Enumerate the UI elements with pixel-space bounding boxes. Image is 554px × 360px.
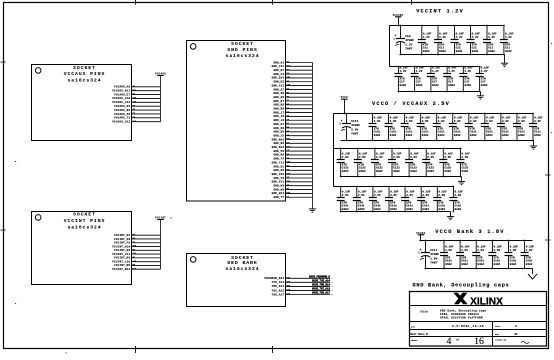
svg-text:2.5V: 2.5V: [406, 120, 413, 123]
svg-text:VCCINT_G10: VCCINT_G10: [112, 245, 130, 248]
svg-text:0402: 0402: [390, 208, 397, 211]
svg-text:0402: 0402: [454, 134, 461, 137]
svg-text:2.5V: 2.5V: [462, 156, 469, 159]
svg-text:1.2V: 1.2V: [488, 36, 495, 39]
svg-text:1.8V: 1.8V: [510, 249, 517, 252]
svg-text:2.5V: 2.5V: [374, 120, 381, 123]
svg-text:VCCAUX_F10: VCCAUX_F10: [112, 97, 130, 100]
svg-text:1.8V: 1.8V: [461, 249, 468, 252]
svg-text:Doc: Doc: [411, 326, 416, 329]
svg-text:+: +: [395, 34, 397, 38]
svg-text:2.5V: 2.5V: [376, 156, 383, 159]
svg-text:0402: 0402: [445, 263, 452, 266]
svg-text:GND_Y7: GND_Y7: [273, 196, 284, 199]
svg-text:TMS_B14: TMS_B14: [272, 285, 285, 288]
svg-text:0402: 0402: [462, 170, 469, 173]
svg-text:5: 5: [332, 294, 333, 296]
svg-text:VCCINT_E8: VCCINT_E8: [114, 238, 130, 241]
svg-text:0402: 0402: [406, 208, 413, 211]
svg-text:SOCKET: SOCKET: [73, 65, 96, 71]
svg-text:#1: #1: [514, 333, 518, 336]
svg-text:Title: Title: [420, 309, 428, 313]
svg-text:1.8V: 1.8V: [494, 249, 501, 252]
svg-text:0402: 0402: [374, 134, 381, 137]
svg-text:C: C: [551, 131, 553, 134]
svg-text:3: 3: [65, 352, 67, 355]
svg-text:1: 1: [332, 278, 333, 280]
svg-text:VCCINT_J11: VCCINT_J11: [112, 253, 130, 256]
svg-text:0402: 0402: [374, 208, 381, 211]
svg-text:0402: 0402: [502, 134, 509, 137]
svg-text:Rev: Rev: [495, 333, 500, 336]
svg-text:VCCAUX_P8: VCCAUX_P8: [114, 113, 130, 116]
svg-text:0402: 0402: [464, 84, 471, 87]
svg-text:GND_W14: GND_W14: [272, 192, 285, 195]
svg-text:GND_J9: GND_J9: [273, 119, 284, 122]
svg-text:0402: 0402: [488, 50, 495, 53]
svg-text:1.2V: 1.2V: [448, 70, 455, 73]
svg-text:GND_M10: GND_M10: [272, 138, 285, 141]
svg-text:VCCINT_K6: VCCINT_K6: [114, 257, 130, 260]
svg-text:B: B: [15, 160, 17, 163]
svg-text:GND_K7: GND_K7: [273, 123, 284, 126]
svg-text:VCCINT_N12: VCCINT_N12: [112, 268, 130, 271]
svg-text:0402: 0402: [423, 50, 430, 53]
svg-text:0402: 0402: [427, 170, 434, 173]
svg-text:GND_H9: GND_H9: [273, 108, 284, 111]
svg-text:SOCKET: SOCKET: [73, 212, 96, 218]
svg-text:G: G: [515, 325, 517, 328]
svg-text:GND_G7: GND_G7: [273, 88, 284, 91]
svg-text:SP3GL SOLUTION PLATFORM: SP3GL SOLUTION PLATFORM: [440, 316, 483, 319]
svg-text:SOCK_TMS_B14: SOCK_TMS_B14: [312, 284, 331, 287]
svg-text:VCCAUX_A9: VCCAUX_A9: [114, 86, 130, 89]
svg-text:1.2V: 1.2V: [432, 70, 439, 73]
svg-text:2.5V: 2.5V: [342, 156, 349, 159]
svg-text:0402: 0402: [439, 50, 446, 53]
svg-text:2.5V: 2.5V: [470, 120, 477, 123]
svg-text:VCCO Bank 3 1.8V: VCCO Bank 3 1.8V: [435, 229, 504, 235]
svg-text:SOCK_TDO_A17: SOCK_TDO_A17: [312, 292, 331, 295]
svg-text:0402: 0402: [400, 84, 407, 87]
svg-text:Drawn By: Drawn By: [496, 338, 507, 341]
svg-text:GND_F12: GND_F12: [272, 84, 285, 87]
svg-text:0402: 0402: [432, 84, 439, 87]
svg-text:VCCAUX_V13: VCCAUX_V13: [112, 121, 130, 124]
svg-text:SOCKET: SOCKET: [231, 41, 254, 47]
svg-text:0402: 0402: [342, 170, 349, 173]
svg-text:VCCAUX_N5: VCCAUX_N5: [114, 109, 130, 112]
svg-text:1.8V: 1.8V: [477, 249, 484, 252]
svg-text:2.5V: 2.5V: [438, 194, 445, 197]
svg-text:0402: 0402: [461, 263, 468, 266]
svg-text:0402: 0402: [444, 170, 451, 173]
svg-text:GND Bank, Decoupling caps: GND Bank, Decoupling caps: [413, 283, 510, 289]
svg-text:VCCINT_L10: VCCINT_L10: [112, 260, 130, 263]
svg-text:GND_V5: GND_V5: [273, 177, 284, 180]
svg-text:2.5V: 2.5V: [390, 194, 397, 197]
svg-text:GND_U1: GND_U1: [273, 165, 284, 168]
svg-text:2.5V: 2.5V: [438, 120, 445, 123]
svg-text:GND_T12: GND_T12: [272, 161, 285, 164]
svg-text:D: D: [551, 42, 553, 45]
svg-text:0402: 0402: [406, 134, 413, 137]
svg-text:2.5V: 2.5V: [486, 120, 493, 123]
svg-text:0402: 0402: [416, 84, 423, 87]
svg-text:1.2V: 1.2V: [505, 36, 512, 39]
svg-text:TDI_A13: TDI_A13: [272, 289, 285, 292]
svg-text:0402: 0402: [510, 263, 517, 266]
svg-text:0402: 0402: [534, 134, 541, 137]
svg-text:XILINX: XILINX: [470, 296, 503, 307]
svg-text:2: 2: [332, 282, 333, 284]
svg-text:TANT: TANT: [351, 133, 358, 136]
svg-text:0402: 0402: [486, 134, 493, 137]
svg-text:GND_B7: GND_B7: [273, 69, 284, 72]
svg-text:PROGRAM_B14: PROGRAM_B14: [264, 277, 284, 280]
svg-text:VCCAUX_T2: VCCAUX_T2: [114, 117, 130, 120]
svg-text:VCCINT_H5: VCCINT_H5: [114, 249, 130, 252]
svg-text:GND_D14: GND_D14: [272, 77, 285, 80]
svg-text:0402: 0402: [481, 84, 488, 87]
svg-text:2.5V: 2.5V: [422, 194, 429, 197]
svg-text:sa16cs324: sa16cs324: [67, 78, 101, 84]
svg-text:C117: C117: [430, 249, 437, 252]
svg-text:GND_R9: GND_R9: [273, 154, 284, 157]
svg-text:TANT: TANT: [405, 48, 412, 51]
svg-text:sa16cs324: sa16cs324: [225, 53, 259, 59]
svg-text:0402: 0402: [438, 134, 445, 137]
svg-text:0402: 0402: [477, 263, 484, 266]
svg-text:0402: 0402: [470, 134, 477, 137]
svg-text:0402: 0402: [358, 208, 365, 211]
svg-text:0402: 0402: [472, 50, 479, 53]
svg-text:0402: 0402: [390, 134, 397, 137]
svg-text:VCCINT_M5: VCCINT_M5: [114, 264, 130, 267]
svg-text:GND_H7: GND_H7: [273, 100, 284, 103]
svg-text:GND_H8: GND_H8: [273, 104, 284, 107]
svg-text:VCCINT 1.2V: VCCINT 1.2V: [416, 9, 464, 15]
svg-text:GND_W9: GND_W9: [273, 188, 284, 191]
svg-text:1.2V: 1.2V: [481, 70, 488, 73]
svg-text:2.5V: 2.5V: [390, 120, 397, 123]
svg-text:GND_K8: GND_K8: [273, 127, 284, 130]
svg-text:0402: 0402: [494, 263, 501, 266]
svg-text:0402: 0402: [456, 50, 463, 53]
svg-text:3: 3: [332, 286, 333, 288]
svg-text:2.5V: 2.5V: [454, 120, 461, 123]
svg-text:GND Bank, Decoupling caps: GND Bank, Decoupling caps: [440, 308, 487, 312]
svg-text:2.5V: 2.5V: [534, 120, 541, 123]
svg-text:0402: 0402: [422, 208, 429, 211]
svg-text:0402: 0402: [526, 263, 533, 266]
svg-text:1.2V: 1.2V: [400, 70, 407, 73]
svg-text:SOCK_TCK_A14: SOCK_TCK_A14: [312, 280, 331, 283]
svg-text:GND_V11: GND_V11: [272, 181, 285, 184]
svg-text:1.2V: 1.2V: [464, 70, 471, 73]
svg-text:of: of: [456, 338, 460, 342]
svg-text:GND_J8: GND_J8: [273, 115, 284, 118]
svg-text:16: 16: [474, 336, 484, 347]
svg-text:0402: 0402: [455, 208, 462, 211]
svg-text:1.2V: 1.2V: [416, 70, 423, 73]
svg-text:GND_A1: GND_A1: [273, 61, 284, 64]
svg-text:0402: 0402: [342, 208, 349, 211]
svg-text:2.5V: 2.5V: [351, 128, 358, 131]
svg-text:DED BANK: DED BANK: [227, 260, 257, 266]
svg-text:2.5V: 2.5V: [374, 194, 381, 197]
svg-text:VCCAUX_B11: VCCAUX_B11: [112, 89, 130, 92]
svg-text:GND_L5: GND_L5: [273, 134, 284, 137]
svg-text:GND_N2: GND_N2: [273, 142, 284, 145]
svg-text:TDO_A17: TDO_A17: [272, 293, 285, 296]
svg-text:1.8V: 1.8V: [430, 257, 437, 260]
svg-text:TCK_A14: TCK_A14: [272, 281, 285, 284]
svg-text:0402: 0402: [438, 208, 445, 211]
svg-text:2.5V: 2.5V: [502, 120, 509, 123]
svg-text:GND_E3: GND_E3: [273, 81, 284, 84]
svg-text:2.5V: 2.5V: [342, 194, 349, 197]
svg-text:VCCAUX_K3: VCCAUX_K3: [114, 105, 130, 108]
svg-text:GND_G9: GND_G9: [273, 96, 284, 99]
svg-text:2.5V: 2.5V: [518, 120, 525, 123]
svg-text:sa16cs324: sa16cs324: [67, 224, 101, 230]
svg-text:sa16cs324: sa16cs324: [225, 266, 259, 272]
svg-text:4700F: 4700F: [430, 253, 439, 256]
svg-text:GND_U8: GND_U8: [273, 169, 284, 172]
svg-text:VCCAUX PINS: VCCAUX PINS: [64, 71, 106, 77]
svg-text:2.5V: 2.5V: [422, 120, 429, 123]
svg-text:4700F: 4700F: [351, 124, 360, 127]
svg-text:2.5V: 2.5V: [393, 156, 400, 159]
svg-text:GND_W3: GND_W3: [273, 185, 284, 188]
svg-text:1.2V: 1.2V: [472, 36, 479, 39]
svg-text:SOCK_PROGRAM_B: SOCK_PROGRAM_B: [309, 276, 331, 279]
svg-text:GND_T4: GND_T4: [273, 158, 284, 161]
svg-text:0402: 0402: [410, 170, 417, 173]
svg-text:1.8V: 1.8V: [526, 249, 533, 252]
svg-text:2.5V: 2.5V: [427, 156, 434, 159]
svg-text:Matt Ross B: Matt Ross B: [411, 333, 429, 336]
svg-text:2.5V: 2.5V: [444, 156, 451, 159]
svg-text:1.2V: 1.2V: [423, 36, 430, 39]
svg-text:2.5V: 2.5V: [359, 156, 366, 159]
svg-text:2.5V: 2.5V: [455, 194, 462, 197]
svg-text:2.5V: 2.5V: [358, 194, 365, 197]
svg-text:VCCO / VCCAUX 2.5V: VCCO / VCCAUX 2.5V: [372, 101, 450, 107]
svg-text:4: 4: [332, 289, 334, 292]
svg-text:4: 4: [447, 336, 452, 347]
svg-text:GND_U16: GND_U16: [272, 173, 285, 176]
svg-text:VCCINT PINS: VCCINT PINS: [64, 218, 106, 224]
svg-text:Part: Part: [495, 325, 501, 328]
svg-text:GND PINS: GND PINS: [227, 47, 257, 53]
svg-text:1.2V: 1.2V: [456, 36, 463, 39]
svg-text:1.8V: 1.8V: [445, 249, 452, 252]
svg-text:GND_N13: GND_N13: [272, 146, 285, 149]
svg-text:0402: 0402: [518, 134, 525, 137]
svg-text:1.2V: 1.2V: [439, 36, 446, 39]
svg-text:GND_P6: GND_P6: [273, 150, 284, 153]
svg-text:SOCK_TDI_A13: SOCK_TDI_A13: [312, 288, 331, 291]
svg-text:C-P-SPGL_16-16: C-P-SPGL_16-16: [452, 325, 484, 328]
svg-text:0402: 0402: [359, 170, 366, 173]
svg-text:0402: 0402: [422, 134, 429, 137]
svg-text:GND_C4: GND_C4: [273, 73, 284, 76]
svg-text:0402: 0402: [448, 84, 455, 87]
svg-text:VCCAUX_J12: VCCAUX_J12: [112, 101, 130, 104]
svg-text:4700F: 4700F: [405, 39, 414, 42]
svg-text:1.2V: 1.2V: [405, 43, 412, 46]
svg-text:C10: C10: [405, 35, 411, 38]
svg-text:2.5V: 2.5V: [406, 194, 413, 197]
svg-text:0402: 0402: [393, 170, 400, 173]
svg-text:GND_G8: GND_G8: [273, 92, 284, 95]
svg-text:VCCAUX_E7: VCCAUX_E7: [114, 93, 130, 96]
svg-text:A: A: [15, 302, 17, 305]
svg-text:Sheet: Sheet: [411, 339, 418, 342]
svg-text:0402: 0402: [376, 170, 383, 173]
svg-text:GND_C11: GND_C11: [272, 65, 285, 68]
svg-text:VCCINT_E5: VCCINT_E5: [114, 234, 130, 237]
svg-text:0402: 0402: [505, 50, 512, 53]
svg-text:2.5V: 2.5V: [410, 156, 417, 159]
svg-text:GND_J7: GND_J7: [273, 111, 284, 114]
svg-text:C114: C114: [351, 120, 358, 123]
svg-text:TL: TL: [170, 218, 172, 220]
svg-text:GND_K9: GND_K9: [273, 131, 284, 134]
svg-text:VCCINT_F6: VCCINT_F6: [114, 242, 130, 245]
svg-text:+: +: [341, 119, 343, 123]
svg-text:+: +: [420, 248, 422, 252]
svg-text:TANT: TANT: [430, 262, 437, 265]
